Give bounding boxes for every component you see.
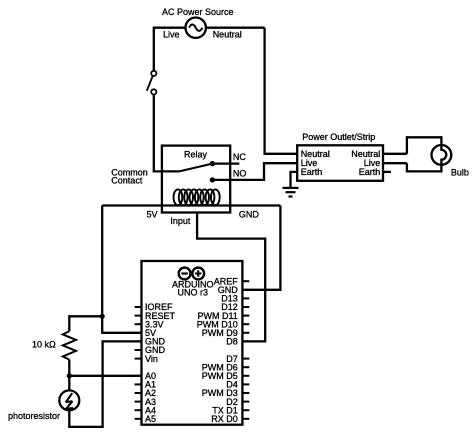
wire outlet right live to bulb [383,162,407,164]
power outlet box [297,145,383,181]
wire NO to live of outlet [212,163,297,180]
arduino right pin stubs [242,281,249,419]
svg-text:10 kΩ: 10 kΩ [32,340,56,350]
svg-text:Bulb: Bulb [451,167,469,177]
wire NC stub [212,162,239,164]
arduino left labels [145,302,176,424]
switch lever [147,76,153,91]
wire outlet right neutral to bulb [383,153,407,155]
relay coil [174,189,220,205]
wire relay GND to arduino GND [242,206,280,290]
svg-text:Relay: Relay [184,149,208,159]
photoresistor LDR1 [59,390,79,410]
ground symbol [283,188,299,197]
arduino U1 box [142,261,243,425]
wire coil bus 5V-GND [102,204,280,206]
svg-text:5V: 5V [147,209,158,219]
wire photoresistor to GND [69,341,141,427]
wire switch to common contact [154,95,179,172]
photoresistor bolt [66,393,73,409]
wire outlet right earth stub [383,171,391,173]
svg-text:Live: Live [163,30,180,40]
relay box U2 [162,146,230,213]
svg-text:Contact: Contact [111,175,143,185]
arduino logo [179,268,204,280]
relay NO contact dot [210,177,215,182]
relay NC contact dot [210,161,215,166]
wire branch to resistor [69,316,102,331]
wire neutral down [265,28,298,154]
wire A0 [69,375,141,377]
wire relay input to D8 [197,213,265,342]
svg-text:Earth: Earth [301,167,323,177]
wire AC live top [154,27,186,29]
wire resistor to junction [68,360,70,376]
svg-text:NC: NC [233,152,246,162]
bulb loop wire [407,137,446,171]
wire junction to photoresistor [68,376,70,391]
arduino right labels [197,276,239,424]
wire AC neutral top [206,27,265,29]
bulb lamp circle [432,145,452,165]
svg-text:A5: A5 [145,414,156,424]
svg-text:UNO r3: UNO r3 [178,288,209,298]
wire live down to switch [153,27,155,71]
relay lever common to NC [179,164,212,172]
junction dot A0 branch [67,373,72,378]
svg-text:AC Power Source: AC Power Source [162,7,234,17]
resistor R1 10k zigzag [63,331,76,359]
svg-text:RX D0: RX D0 [211,414,238,424]
svg-text:D8: D8 [226,337,238,347]
wire 5V down left [102,206,141,333]
svg-text:Earth: Earth [359,167,381,177]
svg-text:Neutral: Neutral [213,30,242,40]
svg-text:Vin: Vin [145,354,158,364]
AC source V1 [186,18,206,38]
wire outlet left earth to ground [291,172,298,187]
svg-text:GND: GND [239,209,260,219]
svg-text:Input: Input [170,216,191,226]
svg-text:NO: NO [233,168,247,178]
svg-text:photoresistor: photoresistor [8,411,60,421]
switch S1 [151,71,156,95]
svg-text:Power Outlet/Strip: Power Outlet/Strip [302,132,375,142]
arduino left pin stubs [135,307,142,419]
junction dot 5V branch [100,314,105,319]
